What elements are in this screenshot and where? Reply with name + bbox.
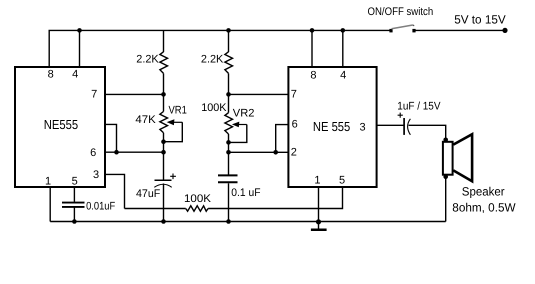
timer IC U2 NE555 body [288,67,376,187]
svg-text:2: 2 [291,147,297,159]
terminal dot supply input [502,28,507,33]
svg-text:7: 7 [91,88,97,100]
wire speaker to ground rail [445,177,447,222]
svg-text:6: 6 [292,119,298,131]
wire VR2 bottom to C3 [228,134,230,175]
switch S1 ON/OFF contacts and lever [389,25,415,33]
junction dot rail/R2 [226,28,231,33]
wire VR1 wiper return loop [164,122,183,141]
plus sign C4 [398,113,403,118]
wire U1 pin3 output down to 100K R3 [106,174,125,208]
svg-text:8: 8 [48,69,54,81]
svg-text:4: 4 [340,70,346,82]
wire IC2 pin8 to rail [311,30,313,66]
svg-text:2.2K: 2.2K [136,53,159,65]
junction dot pin2 jog/pin6 wire [114,150,119,155]
junction dot rail/IC2 pin4 [341,28,346,33]
svg-text:5V to 15V: 5V to 15V [454,13,506,27]
wire IC2 pin4 to rail [342,30,344,66]
capacitor C1 0.01uF plates [62,203,85,207]
wire U1 pin6 to cap column [106,151,164,153]
node VCC top rail left segment [49,30,391,66]
wire 2.2K R2 top to rail [228,30,230,52]
svg-text:NE555: NE555 [44,117,78,132]
wiper arrow VR2 [232,122,247,128]
node supply input rail right segment [414,29,505,31]
plus sign C2 [170,174,176,180]
svg-text:VR1: VR1 [169,105,187,117]
svg-text:Speaker: Speaker [462,185,505,199]
junction dot R1/VR1/pin7 [161,92,166,97]
wire U2 pin7 to VR2 node [229,93,289,95]
wire U1 pin1 to ground rail [49,188,51,222]
wire IC1 pin4 to rail [79,30,81,66]
wire C2 to ground rail [163,184,165,222]
wire VR1 bottom to C2 [163,133,165,180]
junction dot rail/IC1 pin4 [77,28,82,33]
svg-text:3: 3 [93,169,99,181]
svg-text:1: 1 [45,176,51,188]
junction dot C2/ground rail [161,219,166,224]
wire U2 pin6 jog to pin2 wire [276,125,289,153]
junction dot C3/ground rail [226,219,231,224]
wire C3 to ground rail [228,183,230,221]
svg-text:1uF / 15V: 1uF / 15V [397,100,441,112]
potentiometer VR2 100K zigzag [225,113,233,134]
svg-text:0.01uF: 0.01uF [86,201,115,213]
potentiometer VR1 47K zigzag [160,112,168,133]
svg-text:3: 3 [360,122,366,134]
wire 2.2K R1 top to rail [163,30,165,52]
capacitor C3 0.1uF plates [218,175,238,182]
wiper arrow VR1 [167,119,183,125]
svg-text:VR2: VR2 [233,108,255,120]
junction dot VR1 wiper/column [161,139,166,144]
svg-text:100K: 100K [201,102,227,114]
wire C4 to speaker [409,125,446,140]
wire U1 pin7 to R1/VR1 node [106,93,164,95]
svg-text:ON/OFF switch: ON/OFF switch [368,6,434,18]
junction dot speaker top [443,138,448,143]
wire C1 to ground rail [73,208,75,222]
wire R3 right lead to U2 pin5 [208,188,342,209]
junction dot C1/ground rail [72,219,77,224]
junction dot column/pin6 wire [161,150,166,155]
wire U1 pin5 to C1 [73,188,75,202]
svg-text:1: 1 [314,175,320,187]
svg-text:8: 8 [310,70,316,82]
wire U1 pin2 jog to pin6 line [106,124,117,152]
svg-text:7: 7 [291,88,297,100]
resistor R1 2.2K zigzag [160,52,168,74]
svg-text:5: 5 [72,176,78,188]
timer IC U1 NE555 body [15,67,105,187]
svg-text:5: 5 [339,175,345,187]
junction dot speaker bottom [443,175,448,180]
svg-text:NE 555: NE 555 [313,119,350,134]
junction dot R2/VR2/pin7 [226,92,231,97]
svg-text:0.1 uF: 0.1 uF [231,187,260,199]
wire VR2 wiper return loop [229,125,247,143]
junction dot column/pin2 wire [226,150,231,155]
svg-text:47K: 47K [135,114,156,126]
resistor R3 100K horizontal zigzag [186,206,208,211]
wire U2 pin1 to ground rail [318,188,320,222]
junction dot VR2 wiper/column [226,140,231,145]
wire U2 pin3 to C4 [377,124,404,126]
wire U2 pin2 to column [229,151,289,153]
svg-text:4: 4 [72,69,78,81]
svg-text:2.2K: 2.2K [201,53,224,65]
speaker LS1 driver body [443,142,453,175]
speaker LS1 horn [453,134,472,181]
wire R3 left lead from U1 pin3 [125,208,186,210]
svg-text:100K: 100K [184,193,212,205]
capacitor C2 47uF electrolytic plates [154,180,171,187]
junction dot pin6 jog/pin2 wire [273,150,278,155]
wire R2 bottom to U2 pin7 node [228,73,230,112]
wire R1 bottom to pin7 node [163,73,165,111]
svg-text:47uF: 47uF [136,188,161,200]
node ground bottom rail [50,221,446,223]
capacitor C4 1uF/15V electrolytic [404,118,410,135]
junction dot rail/IC2 pin8 [310,28,315,33]
resistor R2 2.2K zigzag [225,52,233,74]
svg-text:6: 6 [90,147,96,159]
svg-text:8ohm, 0.5W: 8ohm, 0.5W [452,200,516,214]
ground symbol [311,222,327,230]
junction dot U2 pin1/ground rail [316,219,321,224]
